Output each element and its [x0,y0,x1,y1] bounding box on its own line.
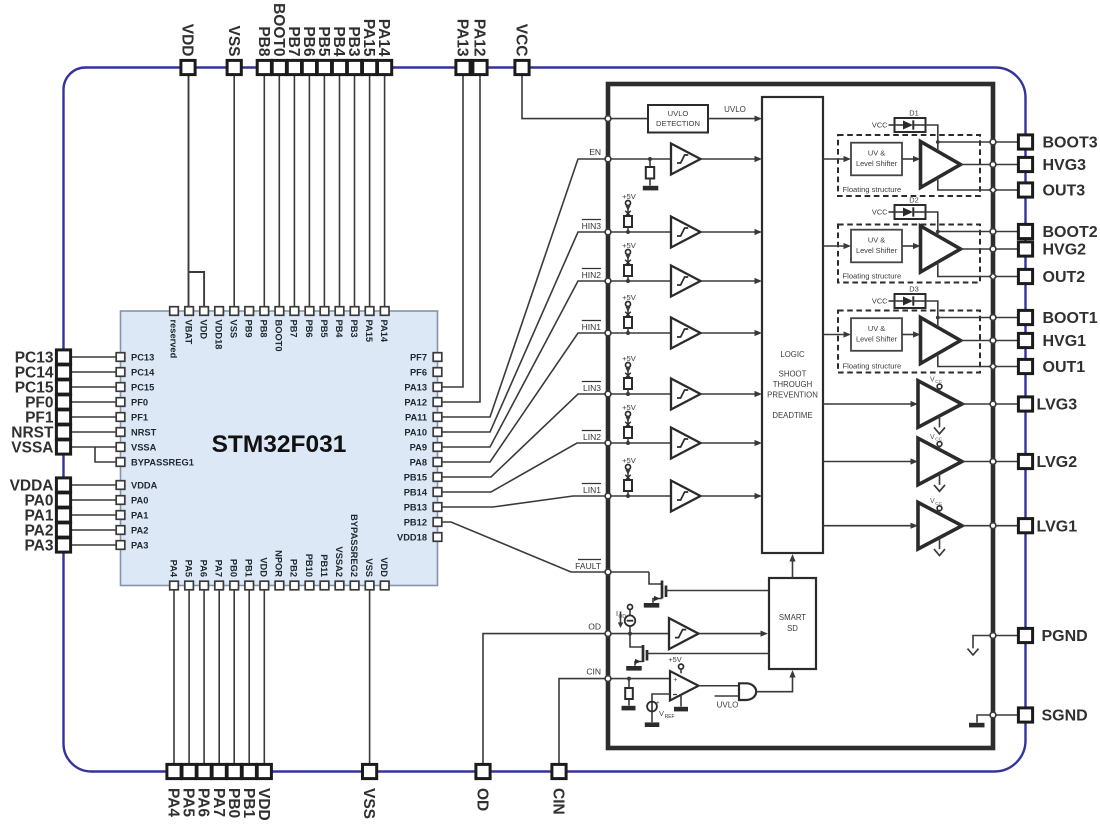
wire HIN1 buffer to logic [701,330,763,336]
wire LVG3 output [962,403,993,405]
terminal PB7 (top) [285,26,302,74]
svg-text:VDD18: VDD18 [397,532,427,542]
chip pin PB2 (bottom) [289,559,299,590]
chip pin VSS (bottom) [364,558,374,589]
svg-text:OUT3: OUT3 [1043,183,1086,200]
wire chip pin PA10 to driver input [442,232,608,432]
transistor FAULT open-drain [649,572,769,603]
svg-text:PC13: PC13 [131,352,154,362]
node LVG2 [990,459,996,465]
resistor HIN2 pull-up to +5V [622,241,637,283]
svg-text:PA11: PA11 [405,412,427,422]
wire HIN2 buffer to logic [701,278,763,284]
svg-text:PA15: PA15 [364,320,374,343]
svg-text:VSS: VSS [225,25,242,56]
wire PA13 terminal to chip pin PA13 [442,68,463,388]
resistor LIN1 pull-up to +5V [622,456,637,498]
signal UVLO to logic [708,105,762,122]
svg-text:VSS: VSS [229,320,239,339]
svg-text:PA0: PA0 [131,495,148,505]
wire PB7 terminal to chip pin [293,68,295,308]
chip pin PA14 (top) [379,307,389,343]
terminal PA7 (bottom) [210,764,227,817]
svg-text:VBAT: VBAT [183,320,193,345]
ground OD transistor source [626,666,642,671]
svg-text:VSSA: VSSA [11,440,53,457]
svg-text:VSSA2: VSSA2 [334,547,344,578]
svg-text:PB1: PB1 [244,559,254,577]
svg-text:PB15: PB15 [404,472,427,482]
high-side driver 1 [921,318,961,364]
ground PGND internal [968,636,994,656]
terminal PA14 (top) [375,19,392,75]
wire driver output to PGND terminal [993,635,1019,637]
chip pin PA10 (right) [404,427,441,437]
node BOOT2 [990,229,996,235]
svg-text:PB0: PB0 [229,559,239,577]
wire chip pin PB14 to driver input [442,443,608,492]
wire logic to level shifter 2 [823,243,851,249]
svg-text:OD: OD [588,622,601,632]
terminal PB3 (top) [345,26,362,74]
node LIN1 [582,484,671,497]
svg-text:D2: D2 [909,196,918,205]
svg-text:+5V: +5V [622,354,637,363]
svg-text:Level Shifter: Level Shifter [856,335,898,344]
svg-text:VCC: VCC [872,208,888,217]
terminal VCC (top) [513,24,530,75]
schmitt buffer HIN3 [671,217,701,248]
svg-text:NPOR: NPOR [274,550,284,577]
terminal PF0 (left) [25,395,71,412]
svg-text:+: + [673,677,677,684]
terminal PA13 (top) [454,19,471,75]
svg-text:PA10: PA10 [404,427,427,437]
terminal VDDA (left) [10,478,71,495]
svg-text:CIN: CIN [586,667,601,677]
wire driver output to LVG1 terminal [993,525,1019,527]
supply VCC low-side driver 1 [930,498,943,514]
wire HVG2 line [961,248,994,250]
chip pin VBAT (top) [183,307,193,345]
wire PA12 terminal to chip pin PA12 [442,68,480,403]
node EN on driver boundary [605,156,611,162]
svg-text:PA5: PA5 [180,788,197,817]
terminal OUT3 (right) [1018,183,1085,200]
terminal BOOT1 (right) [1018,310,1097,327]
wire diode D1 to bootstrap line [926,125,938,151]
svg-text:HVG3: HVG3 [1043,157,1087,174]
ground low-side driver 3 [934,416,945,434]
svg-text:PB6: PB6 [304,320,314,338]
svg-text:Floating structure: Floating structure [843,362,902,371]
svg-text:UV &: UV & [868,236,885,245]
node LIN3 [582,382,671,395]
svg-text:PA13: PA13 [454,19,471,57]
chip pin PA3 (left) [116,540,148,550]
svg-text:PA7: PA7 [210,788,227,817]
node PGND [990,633,996,639]
wire chip pin PA8 to driver input [442,333,608,462]
ground low-side driver 2 [934,474,945,492]
node LIN2 [582,431,671,444]
wire PC14 terminal to chip pin [64,371,117,373]
svg-text:REF: REF [665,714,675,720]
wire driver output to HVG2 terminal [993,248,1019,250]
chip pin NPOR (bottom) [274,550,284,590]
wire PB3 terminal to chip pin [354,68,356,308]
wire PF0 terminal to chip pin [64,401,117,403]
wire PA15 terminal to chip pin [369,68,371,308]
terminal PB4 (top) [330,26,347,74]
wire OUT3 line [938,178,993,190]
chip pin PA4 (bottom) [168,560,178,590]
wire chip pin PB12 to driver input [442,522,608,572]
svg-text:LOGIC: LOGIC [780,350,805,359]
ground low-side driver 1 [934,538,945,556]
wire NRST terminal to chip pin [64,431,117,433]
wire driver output to BOOT1 terminal [993,317,1019,319]
wire LIN3 buffer to logic [701,391,763,397]
svg-text:UVLO: UVLO [668,109,689,118]
resistor HIN3 pull-up to +5V [622,192,637,234]
wire driver output to BOOT3 terminal [993,141,1019,143]
comparator CIN [668,655,698,707]
wire chip pin PB15 to driver input [442,394,608,477]
terminal PB8 (top) [255,26,272,74]
svg-text:UVLO: UVLO [724,105,746,114]
svg-text:V: V [659,709,664,718]
chip pin PC14 (left) [116,367,155,377]
chip pin PA11 (right) [405,412,442,422]
node SGND [990,712,996,718]
supply VCC low-side driver 3 [930,376,943,392]
svg-text:CIN: CIN [550,788,567,815]
node HVG3 [990,162,996,168]
svg-text:PB4: PB4 [334,320,344,339]
svg-text:UV &: UV & [868,149,885,158]
wire BOOT3 line [938,141,993,143]
chip pin PB15 (right) [404,472,442,482]
terminal LVG3 (right) [1018,397,1077,414]
wire chip pin PB1 to bottom terminal [248,586,250,772]
chip pin PB3 (top) [349,307,359,338]
wire VSS terminal to VSS pin [233,68,235,308]
terminal VSSA (left) [11,440,70,457]
voltage source VREF [647,694,675,722]
block UV & Level Shifter 2 [851,230,902,263]
chip pin PA9 (right) [410,442,442,452]
svg-text:VDD: VDD [259,557,269,577]
svg-text:PA3: PA3 [24,538,53,555]
svg-text:PB13: PB13 [404,502,427,512]
terminal VSS (top) [225,25,242,74]
svg-text:PB3: PB3 [349,320,359,338]
wire PB6 terminal to chip pin [308,68,310,308]
svg-text:HVG1: HVG1 [1043,333,1087,350]
svg-text:PA4: PA4 [165,788,182,817]
wire PA14 terminal to chip pin [384,68,386,308]
svg-text:PF6: PF6 [410,367,427,377]
terminal BOOT2 (right) [1018,224,1097,241]
svg-text:LIN1: LIN1 [583,485,601,495]
wire driver output to BOOT2 terminal [993,231,1019,233]
wire PA2 terminal to chip pin [64,529,117,531]
svg-text:PB8: PB8 [259,320,269,338]
chip pin VDD (bottom) [259,557,269,589]
chip pin VDD18 (right) [397,532,442,542]
wire logic to low-side driver 2 [823,458,918,464]
svg-text:PA14: PA14 [375,19,392,57]
terminal SGND (right) [1018,708,1087,725]
svg-text:Floating structure: Floating structure [843,185,902,194]
svg-text:HIN3: HIN3 [582,221,602,231]
chip pin reserved (top) [168,307,178,359]
terminal CIN (bottom) [550,764,567,814]
chip pin PF6 (right) [410,367,442,377]
supply VCC low-side driver 2 [930,434,943,450]
svg-text:+5V: +5V [622,192,637,201]
wire PA1 terminal to chip pin [64,514,117,516]
svg-text:SD: SD [787,624,798,633]
wire PB8 terminal to chip pin [263,68,265,308]
terminal PB0 (bottom) [225,764,242,818]
high-side driver 2 [921,226,961,272]
svg-text:PB7: PB7 [289,320,299,338]
wire driver output to OUT3 terminal [993,189,1019,191]
node FAULT [575,560,649,573]
terminal HVG3 (right) [1018,157,1086,174]
svg-text:VSS: VSS [360,788,377,819]
terminal VSS (bottom) [360,764,377,819]
svg-text:PGND: PGND [1042,628,1088,645]
svg-text:PA6: PA6 [195,788,212,817]
svg-text:PC14: PC14 [131,367,155,377]
svg-text:UV &: UV & [868,324,885,333]
chip pin PB6 (top) [304,307,314,338]
svg-text:HIN2: HIN2 [582,270,602,280]
svg-text:EN: EN [589,147,601,157]
terminal PA3 (left) [24,538,70,555]
chip pin VDD18 (top) [214,307,224,350]
svg-text:PB3: PB3 [345,26,362,57]
svg-text:PF1: PF1 [131,412,148,422]
chip pin BYPASSREG1 (left) [116,457,194,467]
wire HIN3 buffer to logic [701,229,763,235]
ground CIN resistor [622,706,636,711]
node BOOT1 [990,315,996,321]
wire driver output to SGND terminal [993,714,1019,716]
svg-text:PA12: PA12 [471,19,488,57]
wire VDD terminal to VBAT and VDD pins [189,68,205,308]
svg-text:PB11: PB11 [319,554,329,577]
terminal OD (bottom) [474,764,491,811]
wire HVG3 line [961,164,994,166]
wire OD buffer to SMART SD [699,631,769,637]
node EN [589,147,671,159]
terminal BOOT3 (right) [1018,135,1097,152]
svg-text:SHOOT: SHOOT [779,370,807,379]
wire BOOT2 line [938,231,993,233]
chip pin PA12 (right) [404,397,441,407]
svg-text:VCC: VCC [513,24,530,57]
svg-text:STM32F031: STM32F031 [212,431,347,458]
wire chip pin PA4 to bottom terminal [173,586,175,772]
chip pin PB9 (top) [244,307,254,338]
svg-text:PB12: PB12 [404,517,427,527]
terminal VDD (bottom) [255,764,272,820]
wire BOOT0 terminal to chip pin [278,68,280,308]
floating structure 2 dashed box [838,225,980,283]
svg-text:BOOT0: BOOT0 [270,3,287,56]
terminal LVG1 (right) [1018,518,1077,535]
wire diode D3 to bootstrap line [926,301,938,327]
schmitt buffer LIN3 [671,379,701,410]
svg-text:BYPASSREG2: BYPASSREG2 [349,514,359,577]
terminal HVG2 (right) [1018,242,1086,259]
wire BOOT1 line [938,317,993,319]
wire VCC terminal to driver VCC input [522,68,608,119]
svg-text:PB6: PB6 [300,26,317,57]
svg-text:PB5: PB5 [315,26,332,57]
chip pin PA8 (right) [410,457,442,467]
ground VREF [645,722,660,727]
svg-text:Floating structure: Floating structure [843,272,902,281]
node HIN3 [582,220,671,233]
svg-text:BYPASSREG1: BYPASSREG1 [131,457,194,467]
terminal PF1 (left) [25,410,71,427]
node OD on driver boundary [605,631,611,637]
node LIN3 on driver boundary [605,391,611,397]
svg-text:D1: D1 [909,109,918,118]
node HVG2 [990,246,996,252]
node HIN2 on driver boundary [605,278,611,284]
wire logic to level shifter 3 [823,156,851,162]
terminal PA1 (left) [24,508,70,525]
node OUT2 [990,273,997,280]
node LIN1 on driver boundary [605,493,611,499]
wire driver output to HVG3 terminal [993,164,1019,166]
terminal NRST (left) [11,425,70,442]
wire OUT2 line [938,262,993,276]
terminal PA12 (top) [471,19,488,75]
node OUT1 [990,363,997,370]
svg-text:VCC: VCC [872,297,888,306]
chip pin VSSA2 (bottom) [334,547,344,590]
chip pin VDD (top) [198,307,208,340]
wire driver output to LVG2 terminal [993,461,1019,463]
chip pin PB0 (bottom) [229,559,239,590]
terminal PA15 (top) [360,19,377,75]
block UV & Level Shifter 3 [851,143,902,176]
node HVG1 [990,338,996,344]
svg-text:PA4: PA4 [168,560,178,578]
block UVLO DETECTION [608,105,708,133]
svg-text:VDDA: VDDA [131,480,158,490]
svg-text:LVG2: LVG2 [1037,454,1078,471]
wire AND gate to SMART SD [756,670,795,692]
schmitt buffer HIN1 [671,318,701,349]
svg-text:PA1: PA1 [131,510,148,520]
ground SGND internal [969,715,993,727]
wire VSSA branch to BYPASSREG1 pin [95,447,116,462]
svg-text:FAULT: FAULT [575,561,601,571]
resistor HIN1 pull-up to +5V [622,293,637,335]
wire chip pin PA5 to bottom terminal [188,586,190,772]
svg-text:VDD: VDD [255,788,272,821]
chip pin VDD (bottom) [379,557,389,589]
wire PA0 terminal to chip pin [64,499,117,501]
wire chip pin VDD to bottom terminal [263,586,265,772]
terminal PA4 (bottom) [165,764,182,817]
block SMART SD [769,578,816,669]
chip pin BOOT0 (top) [274,307,284,352]
terminal OUT2 (right) [1018,269,1085,286]
schmitt buffer EN [671,144,701,175]
floating structure 3 dashed box [838,135,980,196]
svg-text:VCC: VCC [872,121,888,130]
terminal PB5 (top) [315,26,332,74]
svg-text:+: + [656,700,660,707]
svg-text:Level Shifter: Level Shifter [856,159,898,168]
terminal LVG2 (right) [1018,454,1077,471]
svg-text:PA15: PA15 [360,19,377,57]
wire logic to level shifter 1 [823,331,851,337]
svg-text:DETECTION: DETECTION [656,119,700,128]
node BOOT3 [990,139,996,145]
wire HVG1 line [961,340,994,342]
chip pin VSSA (left) [116,442,156,452]
terminal PA6 (bottom) [195,764,212,817]
high-side driver 3 [921,142,961,188]
wire PB4 terminal to chip pin [339,68,341,308]
wire LVG1 output [962,525,993,527]
svg-text:PB8: PB8 [255,26,272,57]
wire LIN2 buffer to logic [701,440,763,446]
svg-text:PC15: PC15 [131,382,154,392]
svg-text:DEADTIME: DEADTIME [772,411,812,420]
svg-text:HIN1: HIN1 [582,322,602,332]
gate driver IC block [608,84,993,748]
block UV & Level Shifter 1 [851,318,902,351]
wire driver output to OUT2 terminal [993,276,1019,278]
ground EN pull-down [643,186,659,191]
chip pin PB10 (bottom) [304,554,314,590]
wire chip pin PB13 to driver input [442,496,608,507]
wire diode D2 to bootstrap line [926,212,938,236]
node HIN1 on driver boundary [605,330,611,336]
chip pin PA5 (bottom) [183,560,193,590]
wire OUT1 line [938,354,993,367]
wire chip pin PA11 to driver input [442,159,608,417]
wire level shifter to driver 2 [902,243,921,249]
svg-text:PA3: PA3 [131,540,148,550]
node HIN1 [582,321,671,334]
svg-text:OD: OD [619,614,627,620]
chip pin PB11 (bottom) [319,554,329,590]
svg-text:LIN2: LIN2 [583,432,601,442]
wire driver output to HVG1 terminal [993,340,1019,342]
terminal PA0 (left) [24,493,70,510]
schmitt buffer LIN1 [671,481,701,512]
wire chip pin PB0 to bottom terminal [233,586,235,772]
chip pin PA6 (bottom) [198,560,208,590]
wire chip VSS pin to bottom VSS terminal [369,586,371,772]
chip pin PF7 (right) [410,352,442,362]
node FAULT on driver boundary [605,569,611,575]
svg-text:PB4: PB4 [330,26,347,57]
terminal PB1 (bottom) [240,764,257,818]
